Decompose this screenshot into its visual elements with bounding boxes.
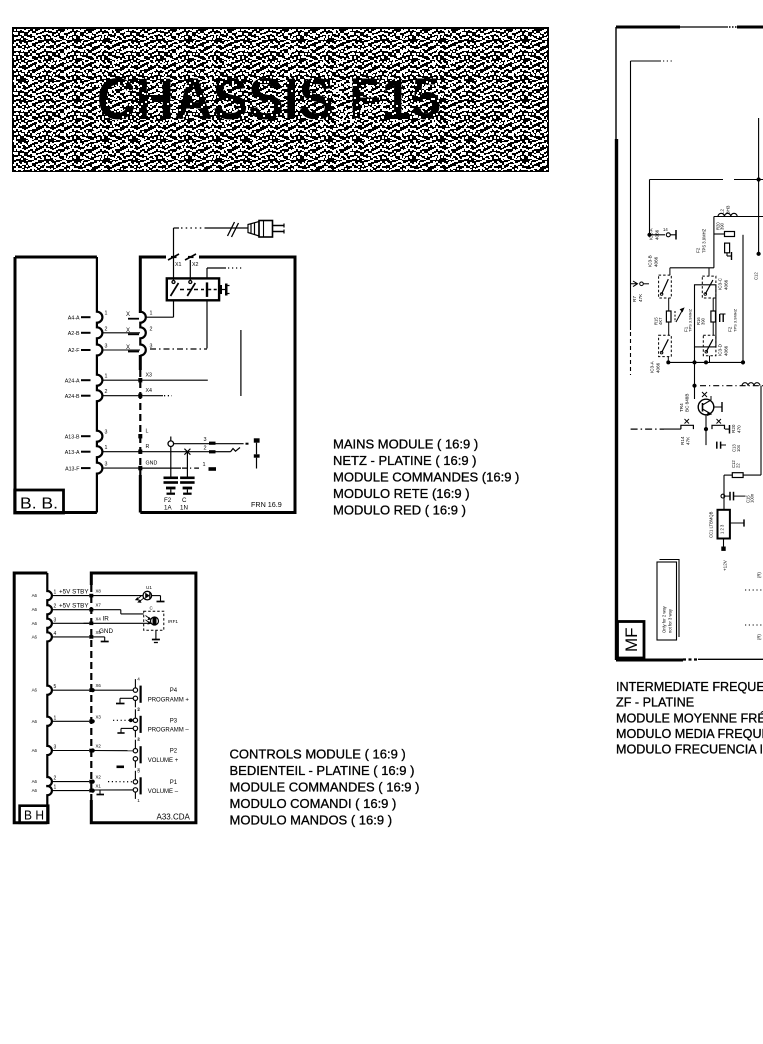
pushbutton P2 [133, 737, 179, 772]
analog switch IC3-A [650, 335, 672, 373]
svg-text:2: 2 [54, 776, 57, 782]
svg-text:390: 390 [701, 317, 706, 325]
ground [99, 790, 101, 795]
IF module frame [616, 27, 763, 660]
svg-text:IC3-B: IC3-B [648, 255, 653, 267]
wire dashdot [631, 428, 664, 430]
svg-text:3: 3 [137, 768, 140, 773]
wire [102, 395, 140, 397]
svg-text:A6: A6 [32, 607, 38, 612]
IR receiver U2 [144, 606, 179, 631]
svg-text:4066: 4066 [656, 362, 661, 373]
controls board B H outline [14, 573, 47, 823]
svg-text:A6: A6 [32, 593, 38, 598]
svg-text:TPS 3.9MHZ: TPS 3.9MHZ [688, 308, 693, 332]
wire [667, 357, 669, 363]
wire [102, 451, 140, 453]
svg-text:A6: A6 [32, 788, 38, 793]
svg-text:MODULO COMANDI ( 16:9 ): MODULO COMANDI ( 16:9 ) [230, 796, 397, 811]
switch actuator [220, 284, 230, 296]
dashed board edge [90, 585, 92, 800]
svg-text:PROGRAMM –: PROGRAMM – [148, 727, 190, 733]
svg-text:C: C [182, 497, 187, 504]
svg-text:A4-A: A4-A [68, 315, 80, 321]
svg-text:A24-B: A24-B [65, 394, 80, 400]
svg-text:(R): (R) [757, 572, 762, 578]
svg-text:A6: A6 [32, 748, 38, 753]
svg-text:VOLUME +: VOLUME + [148, 758, 179, 764]
svg-text:BC 848B: BC 848B [685, 394, 690, 412]
svg-text:P4: P4 [170, 688, 178, 694]
svg-text:X7: X7 [96, 603, 102, 608]
svg-text:MAINS MODULE ( 16:9 ): MAINS MODULE ( 16:9 ) [333, 437, 478, 452]
wire [91, 749, 94, 752]
svg-text:1: 1 [105, 311, 108, 317]
svg-text:C: C [150, 606, 153, 611]
svg-text:X2: X2 [96, 744, 102, 749]
svg-text:MODULO RETE (16:9 ): MODULO RETE (16:9 ) [333, 486, 470, 501]
svg-text:P2: P2 [170, 749, 178, 755]
svg-text:3: 3 [105, 462, 108, 468]
wire switch pole1 to X pin1 [173, 300, 175, 317]
svg-text:CC1 LTBMQB: CC1 LTBMQB [709, 511, 714, 538]
connector X bumps [140, 312, 146, 356]
wire [52, 595, 89, 597]
svg-text:4066: 4066 [724, 345, 729, 356]
svg-text:BEDIENTEIL - PLATINE ( 16:9 ): BEDIENTEIL - PLATINE ( 16:9 ) [230, 763, 415, 778]
wire [52, 609, 89, 611]
wire [102, 467, 140, 469]
ground [104, 637, 106, 642]
pin X6 [89, 688, 93, 692]
capacitor F2 [164, 447, 179, 512]
svg-text:470: 470 [737, 425, 742, 433]
ground [155, 630, 157, 639]
capacitor [720, 313, 726, 315]
IC CC1 [709, 510, 745, 539]
wire [52, 622, 89, 624]
ground [120, 697, 133, 699]
svg-text:+5V STBY: +5V STBY [59, 603, 89, 610]
capacitor C [180, 449, 195, 512]
svg-text:MODULE COMMANDES ( 16:9 ): MODULE COMMANDES ( 16:9 ) [230, 780, 420, 795]
svg-text:IR: IR [103, 616, 110, 623]
svg-text:X: X [126, 345, 130, 351]
svg-text:TPS 3.9MHZ: TPS 3.9MHZ [733, 308, 738, 332]
svg-text:1: 1 [150, 311, 153, 317]
text block IF module [616, 680, 763, 757]
wire [91, 789, 94, 792]
svg-text:14: 14 [663, 227, 668, 232]
svg-text:MODULE COMMANDES (16:9 ): MODULE COMMANDES (16:9 ) [333, 470, 519, 485]
svg-text:A24-A: A24-A [65, 378, 80, 384]
svg-text:390: 390 [720, 222, 725, 230]
pushbutton P3 [133, 707, 189, 742]
svg-text:B H: B H [24, 809, 44, 823]
svg-text:X2: X2 [96, 775, 102, 780]
svg-text:1: 1 [54, 785, 57, 791]
svg-text:ZF - PLATINE: ZF - PLATINE [616, 696, 694, 710]
svg-text:not for 3 way: not for 3 way [668, 608, 673, 633]
svg-text:3: 3 [105, 430, 108, 436]
pin R [138, 450, 142, 454]
connector edge with bumps [97, 257, 103, 513]
svg-text:1: 1 [137, 798, 140, 803]
pin X2 [89, 749, 93, 753]
pin L [138, 434, 142, 438]
svg-text:+12V: +12V [723, 559, 728, 571]
MF label box [618, 622, 645, 659]
svg-text:X: X [126, 312, 130, 318]
ground bar [117, 766, 125, 769]
note box [657, 560, 679, 641]
svg-text:22: 22 [736, 463, 741, 468]
svg-text:PROGRAMM +: PROGRAMM + [148, 697, 190, 703]
mains switch S1 [167, 252, 219, 300]
title block CHASSIS F15 [13, 28, 548, 171]
wire [102, 332, 140, 334]
wire X3 [142, 379, 208, 381]
svg-text:F2: F2 [696, 247, 701, 253]
svg-text:2: 2 [150, 326, 153, 332]
svg-text:Only for 2 way: Only for 2 way [662, 605, 667, 633]
wire [52, 790, 89, 792]
svg-text:1N: 1N [180, 505, 188, 512]
svg-text:L: L [146, 429, 149, 435]
wire R to jack switch [142, 451, 209, 453]
pin X7 [89, 608, 93, 612]
svg-text:3: 3 [54, 745, 57, 751]
wire [630, 61, 632, 330]
wire [91, 780, 94, 783]
wire [694, 347, 696, 399]
label box B H [20, 806, 49, 823]
wire [84, 622, 90, 624]
svg-text:TPS 3.9MHZ: TPS 3.9MHZ [702, 228, 707, 253]
svg-text:X1: X1 [96, 784, 102, 789]
node R junction [168, 441, 174, 447]
svg-text:MODULO MEDIA FREQUENZA: MODULO MEDIA FREQUENZA [616, 727, 763, 741]
svg-text:X3: X3 [96, 714, 102, 719]
pin GND [138, 466, 142, 470]
wire [713, 217, 715, 268]
wire [760, 386, 762, 475]
svg-text:1 2 3: 1 2 3 [720, 524, 725, 534]
pad 2 [209, 450, 216, 453]
wire [52, 750, 89, 752]
pin X2 [89, 780, 93, 784]
pin X3 [138, 378, 142, 382]
chassis board B.B. outline [15, 257, 97, 513]
wire [52, 781, 89, 783]
svg-text:IC3-A: IC3-A [650, 360, 655, 373]
svg-text:MODULO RED ( 16:9 ): MODULO RED ( 16:9 ) [333, 503, 466, 518]
text block mains module [333, 437, 519, 518]
svg-text:FRN 16.9: FRN 16.9 [251, 500, 282, 509]
wire [742, 235, 744, 363]
wire GND [142, 467, 181, 469]
wire [102, 349, 140, 351]
svg-text:GND: GND [146, 461, 158, 467]
svg-text:47K: 47K [686, 436, 691, 445]
svg-text:104: 104 [736, 444, 741, 452]
connector edge bumps [47, 573, 52, 823]
svg-text:U1: U1 [146, 585, 152, 590]
svg-text:A6: A6 [32, 688, 38, 693]
pin X8 [89, 594, 93, 598]
svg-text:IC3-C: IC3-C [718, 277, 723, 290]
analog switch IC3-B [648, 255, 672, 298]
wire [669, 268, 671, 275]
wire node to jack contact [174, 443, 209, 445]
+12V supply [723, 539, 725, 548]
fuse X2 [185, 254, 196, 260]
svg-text:A6: A6 [32, 779, 38, 784]
svg-text:A2-F: A2-F [68, 348, 80, 354]
svg-text:INTERMEDIATE FREQUENCY MODULE: INTERMEDIATE FREQUENCY MODULE [616, 680, 763, 694]
pin X4 [138, 394, 142, 398]
svg-text:A13-A: A13-A [65, 450, 80, 456]
fuse X1 [168, 254, 179, 260]
svg-text:P3: P3 [170, 718, 178, 724]
svg-text:MODULO MANDOS ( 16:9 ): MODULO MANDOS ( 16:9 ) [230, 813, 393, 828]
wire (open) [240, 330, 242, 396]
svg-text:2: 2 [105, 326, 108, 332]
svg-text:4K7: 4K7 [658, 317, 663, 325]
svg-text:3: 3 [105, 344, 108, 350]
wire [52, 636, 89, 638]
svg-text:2: 2 [204, 445, 207, 451]
svg-text:4066: 4066 [724, 279, 729, 290]
wire [650, 179, 724, 181]
label box B.B. [15, 490, 64, 513]
svg-text:A33.CDA: A33.CDA [157, 813, 191, 822]
svg-text:1: 1 [203, 462, 206, 468]
svg-text:R14: R14 [680, 436, 685, 445]
svg-text:IRF1: IRF1 [168, 619, 178, 624]
svg-text:A13-F: A13-F [65, 466, 80, 472]
wire [705, 415, 707, 445]
svg-text:X8: X8 [96, 589, 102, 594]
wire [91, 609, 121, 611]
svg-text:TR4: TR4 [679, 403, 684, 412]
svg-text:X3: X3 [146, 373, 153, 379]
svg-text:3: 3 [54, 617, 57, 623]
svg-text:47K: 47K [638, 293, 643, 302]
svg-text:1: 1 [105, 374, 108, 380]
svg-text:R7: R7 [632, 296, 637, 302]
svg-text:2: 2 [54, 604, 57, 610]
pushbutton P1 [133, 768, 179, 803]
svg-text:A13-B: A13-B [65, 434, 80, 440]
svg-text:C12: C12 [754, 272, 759, 280]
pushbutton P4 [133, 677, 189, 712]
wire [102, 379, 140, 381]
svg-text:(R): (R) [757, 634, 762, 640]
svg-text:A6: A6 [32, 634, 38, 639]
trimmer [676, 308, 684, 322]
wire [723, 475, 725, 510]
mains module board outline [140, 257, 295, 513]
pad 1 [209, 467, 217, 471]
text block controls module [230, 747, 420, 828]
svg-text:X2: X2 [192, 262, 199, 268]
svg-text:X6: X6 [96, 683, 102, 688]
svg-text:CONTROLS MODULE ( 16:9 ): CONTROLS MODULE ( 16:9 ) [230, 747, 406, 762]
pin X1 [89, 789, 93, 793]
wire [758, 118, 760, 254]
svg-text:4: 4 [137, 737, 140, 742]
svg-text:+5V STBY: +5V STBY [59, 589, 89, 596]
wire [709, 356, 711, 363]
wire [91, 689, 94, 692]
wire [52, 720, 89, 722]
svg-text:F2: F2 [164, 497, 172, 504]
mains plug [174, 221, 285, 238]
svg-text:B. B.: B. B. [20, 496, 58, 513]
pin X3 [89, 720, 93, 724]
svg-text:1: 1 [54, 590, 57, 596]
wire dashdot [700, 385, 763, 387]
svg-text:4066: 4066 [654, 256, 659, 267]
wire [52, 689, 89, 691]
pin X4 [89, 622, 93, 626]
svg-text:1: 1 [54, 715, 57, 721]
transistor TR4 [679, 392, 722, 415]
wire node above switch [206, 268, 208, 278]
wire [91, 595, 142, 597]
svg-text:3H3: 3H3 [726, 205, 731, 214]
analog switch IC3-D [703, 335, 728, 356]
bus wire [668, 361, 744, 363]
svg-text:A2-B: A2-B [68, 331, 80, 337]
svg-text:A6: A6 [32, 621, 38, 626]
svg-text:1: 1 [105, 445, 108, 451]
pad 3 [209, 442, 216, 445]
svg-text:R20: R20 [731, 424, 736, 433]
pin X5 [89, 635, 93, 639]
svg-text:X4: X4 [96, 616, 102, 621]
svg-text:R: R [146, 444, 150, 450]
svg-text:MF: MF [622, 627, 641, 652]
svg-text:MODULE MOYENNE FRÉQUENCE: MODULE MOYENNE FRÉQUENCE [616, 710, 763, 725]
wire switch bar to pin3 [206, 300, 208, 348]
wire [91, 720, 94, 723]
svg-text:A6: A6 [32, 719, 38, 724]
svg-text:1A: 1A [164, 505, 172, 512]
svg-text:X4: X4 [146, 388, 153, 394]
svg-text:X: X [126, 328, 130, 334]
svg-text:MODULO FRECUENCIA INTERMEDIA: MODULO FRECUENCIA INTERMEDIA [616, 743, 763, 757]
ground [152, 595, 161, 597]
controls module board outline [91, 573, 196, 823]
svg-text:X1: X1 [175, 262, 182, 268]
analog switch IC3-C [702, 276, 728, 298]
svg-text:VOLUME –: VOLUME – [148, 789, 179, 795]
LED U1 [136, 585, 153, 602]
svg-text:GND: GND [99, 628, 113, 635]
svg-text:IC3-D: IC3-D [718, 343, 723, 356]
wire plug to fuse X1 [173, 228, 175, 252]
ground [121, 727, 133, 729]
svg-text:4: 4 [137, 677, 140, 682]
svg-text:P1: P1 [170, 780, 178, 786]
svg-text:NETZ - PLATINE ( 16:9 ): NETZ - PLATINE ( 16:9 ) [333, 453, 477, 468]
svg-text:4: 4 [54, 631, 57, 637]
svg-text:100n: 100n [750, 493, 755, 503]
wire [708, 268, 710, 276]
svg-text:5: 5 [54, 684, 57, 690]
wire [91, 636, 104, 638]
svg-text:3: 3 [204, 437, 207, 443]
mains board dashed edge [139, 370, 141, 475]
wire X4 [142, 395, 163, 397]
svg-text:2: 2 [105, 389, 108, 395]
headphone jack J1 [254, 438, 260, 468]
box with R16 [695, 285, 716, 347]
svg-text:3: 3 [137, 707, 140, 712]
